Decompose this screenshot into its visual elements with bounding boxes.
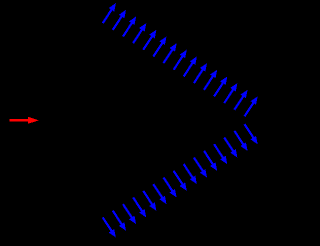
- bottom wavefront arrow 2: [113, 211, 126, 231]
- top wavefront arrow 9: [184, 56, 197, 76]
- bottom wavefront arrow 6: [153, 184, 166, 204]
- top wavefront arrow 1: [103, 3, 116, 23]
- bottom wavefront arrow 8: [174, 171, 187, 191]
- top wavefront arrow 6: [153, 36, 166, 56]
- red particle velocity arrow: [9, 117, 38, 124]
- bottom wavefront arrow 3: [123, 204, 136, 224]
- top wavefront arrow 3: [123, 17, 136, 37]
- bottom wavefront arrow 9: [184, 164, 197, 184]
- bottom wavefront arrow 12: [214, 144, 227, 164]
- top wavefront arrow 11: [204, 70, 217, 90]
- top wavefront arrow 4: [133, 23, 146, 43]
- bottom wavefront arrow 13: [224, 138, 237, 158]
- bottom wavefront arrow 1: [103, 217, 116, 237]
- bottom wavefront arrow 10: [194, 158, 207, 178]
- bottom wavefront arrow 5: [143, 191, 156, 211]
- top wavefront arrow 12: [214, 76, 227, 96]
- bottom wavefront arrow 7: [164, 178, 177, 198]
- top wavefront arrow 7: [164, 43, 177, 63]
- top wavefront arrow 10: [194, 63, 207, 83]
- top wavefront arrow 15: [245, 96, 258, 116]
- bottom wavefront arrow 11: [204, 151, 217, 171]
- top wavefront arrow 8: [174, 50, 187, 70]
- top wavefront arrow 2: [113, 10, 126, 30]
- top wavefront arrow 13: [224, 83, 237, 103]
- bottom wavefront arrow 15: [245, 124, 258, 144]
- top wavefront arrow 5: [143, 30, 156, 50]
- top wavefront arrow 14: [234, 90, 247, 110]
- bottom wavefront arrow 4: [133, 197, 146, 217]
- bottom wavefront arrow 14: [234, 131, 247, 151]
